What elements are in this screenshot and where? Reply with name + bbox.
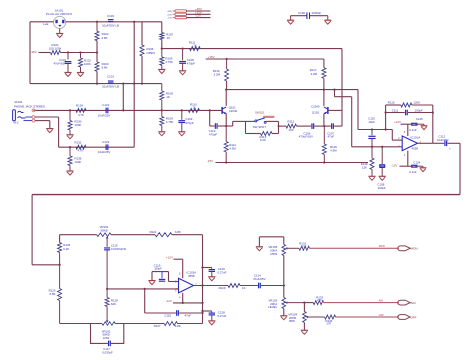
- wire Q101 base: [34, 109, 223, 111]
- svg-text:MON: MON: [411, 247, 418, 251]
- capacitor C113: [209, 110, 211, 126]
- node C129: [201, 266, 203, 268]
- svg-text:IC101A: IC101A: [411, 135, 421, 139]
- svg-text:10uF: 10uF: [368, 120, 375, 124]
- resistor R111: [190, 47, 201, 51]
- resistor R101: [80, 53, 82, 59]
- resistor R116: [226, 59, 228, 69]
- wire into tone: [32, 264, 60, 266]
- wire pin6: [176, 288, 179, 290]
- wire R107 to node: [161, 40, 163, 49]
- svg-text:PLUG-AC 230V/0.5: PLUG-AC 230V/0.5: [46, 12, 73, 16]
- tag MON: [398, 246, 410, 251]
- capacitor C106: [311, 123, 313, 129]
- pin4 riser IC102: [182, 293, 184, 303]
- svg-text:BPF: BPF: [289, 319, 295, 323]
- svg-text:1K: 1K: [193, 106, 196, 110]
- ground C108: [179, 70, 186, 72]
- capacitor C121: [105, 108, 107, 114]
- resistor R127: [164, 322, 177, 326]
- wire bass loop: [91, 324, 108, 344]
- wire bus1 vertical: [133, 22, 135, 84]
- resistor R117: [323, 59, 325, 68]
- node R108 line1: [161, 109, 163, 111]
- svg-text:0.033uF: 0.033uF: [102, 350, 113, 354]
- capacitor C128: [203, 310, 212, 312]
- svg-text:27K: 27K: [327, 322, 332, 326]
- capacitor C117: [108, 341, 110, 347]
- svg-text:4: 4: [179, 295, 181, 299]
- resistor R121: [155, 233, 172, 237]
- svg-text:47uF: 47uF: [185, 313, 192, 317]
- node bus down2 top: [133, 82, 135, 84]
- svg-text:4.3M: 4.3M: [330, 149, 337, 153]
- node emitter2: [323, 125, 325, 127]
- svg-text:12K: 12K: [362, 165, 367, 169]
- ground R136: [66, 170, 73, 172]
- node R128 junction: [106, 288, 108, 290]
- capacitor C114: [258, 283, 260, 289]
- ground VR104: [301, 329, 308, 331]
- node pin4 join: [182, 302, 184, 304]
- transistor Q101: [221, 107, 223, 114]
- svg-text:27K: 27K: [302, 244, 307, 248]
- node A: [161, 47, 163, 49]
- wire top to bus area: [111, 21, 142, 23]
- wire output drop: [459, 143, 461, 194]
- svg-text:+12V: +12V: [166, 255, 173, 259]
- wire bass right: [178, 323, 203, 325]
- wire +12V: [401, 123, 413, 125]
- ground R118: [368, 175, 375, 177]
- wire pin3: [186, 17, 211, 19]
- svg-text:C101: C101: [107, 75, 114, 79]
- ground loop: [148, 280, 155, 282]
- svg-text:100K: 100K: [75, 123, 82, 127]
- pin4 riser: [407, 151, 409, 167]
- potentiometer VR101: [97, 233, 111, 237]
- wire long return: [32, 194, 460, 196]
- capacitor C125: [411, 122, 417, 124]
- node bus down1 bot: [122, 109, 124, 111]
- capacitor C126: [291, 15, 307, 17]
- svg-text:MON: MON: [270, 252, 277, 256]
- node C128: [201, 310, 203, 312]
- ground R109: [158, 131, 165, 133]
- resistor R103: [95, 62, 99, 71]
- wire AIN lead: [304, 302, 313, 304]
- svg-text:C123: C123: [102, 140, 109, 144]
- node bus1 top: [133, 21, 135, 23]
- capacitor C123: [105, 144, 107, 150]
- svg-text:C121: C121: [102, 103, 109, 107]
- resistor R109: [161, 110, 163, 116]
- resistor R136: [69, 147, 71, 156]
- node R114 bottom: [225, 161, 227, 163]
- svg-text:LOW: LOW: [103, 336, 110, 340]
- svg-text:6.8K: 6.8K: [175, 324, 181, 328]
- ground mon: [256, 246, 263, 248]
- node pickup stub: [333, 88, 335, 90]
- svg-text:SW101: SW101: [255, 111, 265, 115]
- svg-text:OFF: OFF: [379, 314, 384, 317]
- wire R117 to collector: [323, 78, 325, 89]
- node fb left: [384, 111, 386, 113]
- wire pin2: [186, 13, 211, 15]
- svg-text:0.1uF: 0.1uF: [409, 128, 417, 132]
- node R101: [79, 51, 81, 53]
- svg-text:6.8K: 6.8K: [102, 36, 108, 40]
- svg-text:4.7K: 4.7K: [78, 113, 84, 117]
- svg-text:47uF: 47uF: [328, 135, 335, 139]
- wire pickup upper: [357, 90, 359, 130]
- svg-text:1K: 1K: [167, 36, 171, 40]
- resistor R119: [323, 126, 325, 144]
- wire pin3 corner: [391, 130, 393, 141]
- resistor R108: [161, 84, 163, 91]
- svg-text:10uF/50V LB: 10uF/50V LB: [102, 24, 119, 28]
- wire -15V rail: [216, 162, 369, 164]
- resistor R131: [299, 246, 310, 250]
- wire switch bypass L: [245, 121, 247, 133]
- feedback right vertical: [432, 105, 434, 143]
- svg-text:JA102: JA102: [14, 100, 23, 104]
- resistor R129: [228, 284, 240, 288]
- node C109: [181, 109, 183, 111]
- svg-text:AIN: AIN: [379, 300, 383, 303]
- wire AIN: [324, 302, 399, 304]
- potentiometer VR105: [283, 237, 285, 245]
- resistor R107: [160, 33, 164, 40]
- wire out2: [240, 285, 258, 287]
- capacitor C101: [108, 80, 114, 82]
- resistor R118: [371, 147, 373, 158]
- wire R116 to collector: [226, 81, 228, 90]
- wire -12V: [400, 165, 413, 167]
- potentiometer VR102: [102, 322, 115, 326]
- capacitor C112: [444, 141, 446, 147]
- wire R107 riser: [142, 21, 162, 23]
- svg-text:R127: R127: [154, 324, 161, 328]
- svg-text:R115: R115: [388, 100, 395, 104]
- resistor R112: [286, 124, 297, 128]
- ground C109: [178, 131, 185, 133]
- wire plug left to left bus: [30, 21, 54, 23]
- loop C119: [152, 271, 169, 273]
- wire treble corner: [59, 235, 61, 243]
- svg-text:100pF: 100pF: [378, 186, 386, 190]
- resistor R130: [69, 110, 71, 120]
- wire mon top: [259, 236, 283, 238]
- resistor R125: [59, 265, 61, 289]
- resistor R110: [188, 108, 199, 112]
- ground C129: [208, 276, 215, 278]
- wire R112 to C106: [297, 125, 312, 127]
- node out join: [283, 284, 285, 286]
- wire Q101 emitter: [225, 114, 227, 126]
- svg-text:4558: 4558: [188, 274, 195, 278]
- svg-text:-12V: -12V: [195, 14, 201, 18]
- resistor R115 loop: [386, 104, 401, 106]
- wire pin1: [186, 10, 211, 12]
- svg-text:100K: 100K: [84, 62, 91, 66]
- node out fb: [201, 284, 203, 286]
- capacitor C109: [181, 110, 183, 119]
- capacitor C120 bias: [381, 147, 383, 164]
- svg-text:R121: R121: [150, 230, 157, 234]
- ground C-bias: [379, 175, 386, 177]
- ground jack: [46, 128, 53, 130]
- resistor R104: [51, 51, 61, 55]
- wire plug right: [66, 21, 111, 23]
- node -12V end: [201, 302, 203, 304]
- svg-text:C103: C103: [107, 14, 114, 18]
- svg-text:Q102: Q102: [312, 110, 319, 114]
- node tone in: [58, 264, 60, 266]
- wire op out: [194, 285, 229, 287]
- svg-text:8: 8: [404, 130, 406, 134]
- svg-text:27K: 27K: [317, 298, 322, 302]
- svg-text:10uF/25V: 10uF/25V: [98, 113, 111, 117]
- node C115 branch: [144, 288, 146, 290]
- svg-text:C115: C115: [164, 313, 171, 317]
- wire pin6 long: [107, 288, 178, 290]
- feedback left vertical: [385, 105, 387, 130]
- svg-text:6.2K: 6.2K: [63, 247, 69, 251]
- resistor R113: [261, 132, 273, 136]
- ground C128: [208, 320, 215, 322]
- transistor Q102: [327, 107, 329, 114]
- wire pin5: [169, 281, 179, 283]
- capacitor C115: [176, 310, 178, 316]
- resistor R132: [76, 145, 86, 149]
- svg-text:2.2M: 2.2M: [214, 73, 221, 77]
- wire jack ring: [26, 116, 33, 118]
- wire 15V rail: [206, 58, 324, 60]
- svg-text:C125: C125: [416, 117, 423, 121]
- wire MON: [310, 247, 399, 249]
- ground R130: [66, 134, 73, 136]
- ground C126 left: [290, 16, 292, 21]
- svg-text:470pF: 470pF: [187, 62, 195, 66]
- svg-text:+12V: +12V: [167, 14, 173, 16]
- svg-text:-15V: -15V: [207, 159, 213, 163]
- node collector bus R: [323, 88, 325, 90]
- tag AIN: [398, 300, 410, 305]
- wire OFF: [336, 316, 399, 318]
- svg-text:62K: 62K: [111, 302, 116, 306]
- node VR104 top: [303, 301, 305, 303]
- svg-text:100pF: 100pF: [415, 109, 423, 113]
- svg-text:+: +: [449, 147, 451, 151]
- capacitor C108: [182, 49, 184, 61]
- wire bass: [60, 323, 102, 325]
- svg-text:100: 100: [289, 128, 294, 132]
- svg-text:10uF/50V LB: 10uF/50V LB: [102, 85, 119, 89]
- ground R105: [158, 69, 165, 71]
- node R119 bottom: [323, 161, 325, 163]
- node R116 top: [225, 58, 227, 60]
- svg-text:MON: MON: [379, 245, 385, 248]
- svg-text:C126: C126: [298, 11, 305, 15]
- wire Q102 base: [328, 109, 342, 111]
- svg-text:-12V: -12V: [167, 18, 172, 20]
- wire fb vertical: [202, 235, 204, 324]
- svg-text:C2240: C2240: [311, 105, 320, 109]
- wire switch to R112: [279, 125, 287, 127]
- svg-text:6.8K: 6.8K: [175, 230, 181, 234]
- ground C104: [64, 72, 71, 74]
- ground C125: [421, 125, 428, 127]
- node emitter1: [225, 125, 227, 127]
- connector JA101 AC plug: [54, 16, 66, 28]
- node bus down1 top: [122, 82, 124, 84]
- svg-text:1K: 1K: [166, 95, 170, 99]
- svg-text:R112: R112: [288, 120, 295, 124]
- wire Q102 emitter: [323, 114, 325, 127]
- wire C115 branch: [144, 289, 146, 313]
- svg-text:C2240: C2240: [229, 109, 238, 113]
- node B: [96, 51, 98, 53]
- ground R101: [77, 72, 84, 74]
- capacitor C124: [411, 164, 417, 166]
- node rail-R102: [96, 82, 98, 84]
- wire pin2 feed: [351, 97, 353, 147]
- ground C126 right: [327, 16, 329, 21]
- wire bus2 vertical: [141, 22, 143, 45]
- svg-text:47uF/63V: 47uF/63V: [53, 62, 66, 66]
- capacitor C116: [104, 247, 110, 249]
- wire left bus vertical: [29, 22, 31, 84]
- svg-text:LEVEL: LEVEL: [268, 305, 277, 309]
- svg-text:8: 8: [179, 271, 181, 275]
- wire line2: [59, 146, 135, 148]
- potentiometer VR104: [303, 303, 305, 312]
- resistor R134: [325, 315, 336, 319]
- svg-text:6.8K: 6.8K: [102, 65, 108, 69]
- svg-text:M-2: M-2: [14, 121, 19, 125]
- svg-text:4.7K: 4.7K: [78, 149, 84, 153]
- wire R103 to rail: [96, 71, 98, 83]
- svg-text:PHONE JACK STEREO: PHONE JACK STEREO: [14, 105, 46, 109]
- svg-text:50KB: 50KB: [100, 228, 107, 232]
- resistor R102: [96, 22, 98, 31]
- svg-text:10uF/25V: 10uF/25V: [98, 150, 111, 154]
- svg-text:0.1uF: 0.1uF: [409, 170, 417, 174]
- svg-text:1K: 1K: [242, 286, 246, 290]
- connector JP101: [175, 10, 187, 12]
- svg-text:470pF: 470pF: [209, 133, 217, 137]
- wire +12V IC102: [174, 258, 183, 260]
- node fb join: [384, 128, 386, 130]
- resistor R106: [140, 45, 144, 56]
- capacitor C107: [324, 125, 331, 127]
- resistor R105: [161, 49, 163, 57]
- node C104: [67, 51, 69, 53]
- svg-text:R129: R129: [219, 286, 226, 290]
- resistor R128: [106, 289, 108, 298]
- svg-text:4.3M: 4.3M: [229, 147, 236, 151]
- svg-text:OFF: OFF: [411, 315, 417, 319]
- resistor R133: [313, 301, 324, 305]
- svg-text:-12V: -12V: [391, 163, 397, 167]
- wire bus down2: [133, 84, 135, 148]
- node C113 tap: [209, 109, 211, 111]
- resistor R114: [225, 126, 227, 142]
- wire ch1 base drop: [341, 49, 343, 127]
- svg-text:0.27uF: 0.27uF: [217, 314, 226, 318]
- tag OFF: [398, 315, 410, 320]
- wire bus down1: [122, 84, 124, 111]
- svg-text:47uF/25V: 47uF/25V: [253, 277, 266, 281]
- wire treble right: [172, 234, 203, 236]
- node plug-right: [96, 21, 98, 23]
- svg-text:0.0015uF/N: 0.0015uF/N: [111, 247, 126, 251]
- svg-text:150 1/2W: 150 1/2W: [49, 46, 62, 50]
- wire jack sleeve: [24, 120, 33, 122]
- ground VR103: [280, 315, 287, 317]
- capacitor C104: [67, 53, 69, 60]
- wire bottom rail: [30, 83, 162, 85]
- wire left drop: [31, 195, 33, 265]
- wire collector bus: [226, 89, 358, 91]
- svg-text:OPEN: OPEN: [147, 51, 155, 55]
- capacitor C103: [108, 19, 114, 21]
- svg-text:120K: 120K: [413, 100, 420, 104]
- svg-text:2.2M: 2.2M: [311, 72, 318, 76]
- capacitor C129: [203, 267, 212, 269]
- svg-text:SW SPDT: SW SPDT: [253, 125, 266, 129]
- node fb right: [432, 111, 434, 113]
- wire -12V IC102: [173, 302, 203, 304]
- svg-text:0.27uF: 0.27uF: [217, 271, 226, 275]
- ground C124: [420, 167, 427, 169]
- svg-text:1K: 1K: [193, 44, 197, 48]
- node C108: [181, 47, 183, 49]
- wire output: [418, 142, 433, 144]
- svg-text:6.8K: 6.8K: [50, 292, 56, 296]
- wire switch bypass R: [272, 133, 279, 135]
- wire node A rail: [162, 48, 342, 50]
- node collector bus L: [225, 88, 227, 90]
- svg-text:R132: R132: [75, 140, 82, 144]
- node R136: [69, 146, 71, 148]
- resistor R126: [58, 243, 62, 253]
- potentiometer VR103: [283, 286, 285, 298]
- svg-text:-12V: -12V: [166, 299, 172, 303]
- capacitor C111 loop: [386, 112, 405, 114]
- node R130: [69, 109, 71, 111]
- svg-text:4558: 4558: [412, 147, 419, 151]
- node R118 top: [371, 146, 373, 148]
- svg-text:470uF/16V: 470uF/16V: [299, 135, 313, 139]
- wire to switch: [226, 125, 233, 127]
- node C-bias top: [381, 146, 383, 148]
- op-amp IC101A: [402, 136, 417, 151]
- svg-text:4.75K: 4.75K: [166, 120, 174, 124]
- svg-text:L+E: L+E: [43, 22, 48, 26]
- svg-text:R124: R124: [76, 104, 83, 108]
- svg-text:+48V: +48V: [167, 11, 173, 13]
- svg-text:1000pF: 1000pF: [312, 11, 322, 15]
- svg-text:6.2K: 6.2K: [260, 138, 266, 142]
- svg-text:AIN: AIN: [411, 301, 416, 305]
- svg-text:4.75K: 4.75K: [165, 60, 173, 64]
- svg-text:470pF: 470pF: [185, 121, 193, 125]
- wire treble top: [60, 234, 97, 236]
- svg-text:C111: C111: [392, 109, 399, 113]
- wiper VR102: [106, 320, 109, 322]
